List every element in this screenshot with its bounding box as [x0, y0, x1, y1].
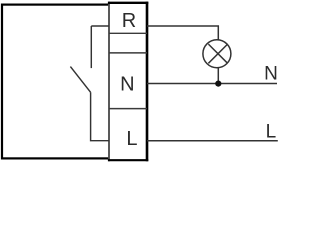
- svg-text:R: R: [122, 10, 136, 32]
- svg-text:N: N: [120, 73, 134, 95]
- svg-text:L: L: [266, 122, 277, 143]
- svg-text:L: L: [126, 128, 137, 150]
- svg-text:N: N: [264, 64, 278, 85]
